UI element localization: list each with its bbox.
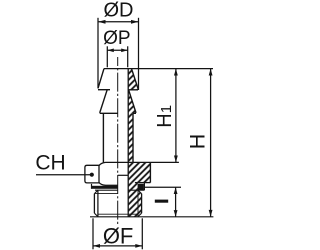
stud top chamfer left [94,190,98,193]
dimension ØP line [107,49,127,51]
I arrow top [174,187,178,194]
seal ring (filled) [138,184,144,191]
ØD arrow right [131,20,139,24]
stud bottom chamfer circle line [98,213,138,215]
H arrow bottom [209,210,213,217]
hex bottom face right (section) [135,182,151,184]
hex middle face bottom edge [106,184,118,186]
dimension H line [210,69,212,217]
stud top face right (section) [128,189,144,191]
hex bottom-left chamfer arc [99,183,106,186]
bottom edge + extension line [90,216,213,218]
flange band left (dark bar) [92,186,118,189]
svg-text:H: H [185,134,209,150]
ØF arrow right [135,244,142,248]
hatched section: flange band [128,183,138,191]
H1 extension line at hex top [150,161,179,163]
hatched section: barb cone 1 band [128,69,138,90]
I arrow bottom [174,210,178,217]
ØD arrow left [98,20,106,24]
dimension ØP extension line right [127,46,129,67]
top edge of fitting + extension line to H [104,68,213,70]
barb cone 1 left edge [98,69,104,89]
thread crest line right (section) [141,194,143,214]
dimension ØD extension line left [97,18,99,89]
stud bottom chamfer left [94,213,98,216]
dimension ØF extension line right [141,218,143,249]
ØF arrow left [93,244,100,248]
barb undercut 1 right [129,89,138,91]
H arrow top [209,69,213,76]
dimension ØD extension line right [138,18,140,90]
neck left edge [102,113,104,162]
hatched section: hex band [128,162,150,182]
internal bore shoulder (section) [118,174,129,176]
ØP arrow right [121,49,128,53]
thread crest line left [93,194,95,214]
stud top chamfer right [138,190,142,193]
svg-text:CH: CH [35,152,65,175]
flange left edge [91,184,93,189]
CH leader dot [90,173,94,177]
hex face line [98,165,100,183]
barb undercut 1 left [98,89,110,91]
hex top face [106,161,151,163]
flange right edge (section) [143,183,145,191]
ØP arrow left [107,49,114,53]
hex left corner face [85,165,99,183]
dimension I extension line [144,186,181,188]
barb undercut 2 right [133,112,136,114]
dimension H1 line [175,69,177,163]
barb undercut 2 left [100,112,118,114]
barb cone 2 left edge [100,90,108,113]
dimension ØF line [93,245,142,247]
CH leader line [36,174,90,176]
dimension I line [175,187,177,217]
svg-text:ØF: ØF [103,224,134,249]
stud bottom chamfer right [138,213,142,216]
thread root line right (section) [137,190,139,216]
dimension I label (rotated) [155,200,168,203]
stud top face [95,189,118,191]
dimension ØF extension line left [92,218,94,249]
barb cone 1 right edge (section) [132,69,139,89]
barb cone 2 right edge [129,90,136,113]
neck right edge (section) [132,113,134,162]
hatched section: threaded stud band [128,190,141,216]
hex right edge (section) [149,162,151,182]
svg-text:H1: H1 [154,105,176,128]
hex top-left chamfer arc [99,162,106,165]
H1 arrow top [174,69,178,76]
svg-text:ØD: ØD [104,0,134,22]
thread root line left [97,190,99,216]
thread chamfer circle line [94,192,117,194]
centerline [117,57,119,225]
bore wall (section) [127,69,129,217]
hatched section: barb cone 2 band [128,90,136,114]
dimension ØD line [98,21,139,23]
hatched section: neck band [128,113,133,162]
svg-text:ØP: ØP [103,28,130,49]
dimension ØP extension line left [106,46,108,67]
H1 arrow bottom [174,156,178,163]
